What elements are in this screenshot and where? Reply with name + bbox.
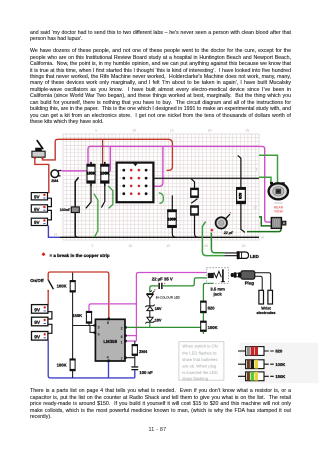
battery B1 9V (schematic): [32, 305, 48, 314]
svg-text:3: 3: [98, 325, 100, 329]
battery link B1-B2: [48, 198, 52, 206]
green wire grid to LED lead 2: [211, 233, 224, 253]
magenta wire pin6: [127, 335, 137, 337]
resistor colour code panel: [240, 343, 319, 383]
svg-text:9V: 9V: [34, 220, 41, 225]
svg-text:100K: 100K: [208, 325, 218, 330]
svg-text:20: 20: [208, 129, 212, 133]
column numbers bottom of grid: [92, 244, 246, 248]
svg-text:electrodes: electrodes: [257, 311, 276, 315]
bi-colour LED: [146, 289, 155, 299]
LED panel indicator: [237, 251, 249, 259]
red wire top rail to IC pin 8 strip: [43, 139, 173, 170]
dark red wire rail to 150K strip: [102, 140, 104, 164]
svg-text:18V: 18V: [155, 306, 162, 311]
blue wire 100nF to rail: [134, 370, 136, 378]
note box: [179, 342, 224, 382]
svg-text:9V: 9V: [34, 195, 41, 200]
capacitor 22uF (top layout): [216, 214, 230, 228]
red wire switch to battery (schematic): [47, 291, 49, 305]
svg-text:14: 14: [260, 236, 264, 240]
svg-text:9V: 9V: [34, 307, 41, 313]
svg-text:9V: 9V: [34, 207, 41, 212]
svg-text:100 nF: 100 nF: [139, 370, 153, 375]
svg-text:100K: 100K: [57, 363, 67, 368]
svg-text:9V: 9V: [34, 334, 41, 340]
LED leads: [225, 253, 237, 256]
svg-text:+: +: [229, 211, 231, 215]
svg-text:150K: 150K: [275, 374, 285, 379]
svg-text:4: 4: [107, 356, 109, 360]
svg-text:BI-COLOUR LED: BI-COLOUR LED: [156, 295, 181, 299]
magenta wire pin1: [127, 340, 137, 342]
svg-text:show that batteries: show that batteries: [182, 357, 217, 362]
resistor 100K R2 (schematic): [57, 359, 76, 371]
zener diode 18V lower: [145, 317, 154, 323]
svg-text:25: 25: [242, 244, 246, 248]
svg-text:15: 15: [166, 244, 170, 248]
green wire jack sleeve to 820: [203, 283, 213, 301]
svg-text:25: 25: [246, 129, 250, 133]
wire rail to 100K R1: [72, 273, 74, 281]
blue wire battery minus to bottom rail: [48, 226, 60, 238]
svg-text:8: 8: [107, 321, 109, 325]
op-amp U2 LM358: [94, 318, 127, 363]
svg-text:is inserted the LED: is inserted the LED: [182, 370, 217, 375]
resistor 100K upper (top layout): [100, 162, 109, 186]
strip break marker: [210, 229, 213, 232]
black wire IC pin7 strip to grid edge: [154, 177, 259, 179]
svg-text:22 µF: 22 µF: [223, 231, 234, 235]
jack socket dashed outline (schematic): [207, 268, 229, 284]
wire 100K R2 to negative rail: [72, 371, 74, 378]
magenta branch to IC pin 3: [154, 146, 163, 186]
wire zener1 to zener2: [149, 311, 151, 318]
svg-text:When switch is ON: When switch is ON: [182, 344, 217, 349]
svg-text:are ok. When plug: are ok. When plug: [182, 364, 217, 369]
svg-text:the LED flashes to: the LED flashes to: [182, 350, 217, 355]
trimpot VR1 2M4: [51, 170, 61, 178]
150K lower lead: [86, 184, 91, 208]
diode D2: [191, 199, 198, 238]
svg-text:On/Off: On/Off: [30, 278, 44, 283]
green stub below 100K R3: [202, 331, 204, 334]
colour code resistor 100K: [238, 360, 285, 369]
capacitor 100nF (top layout): [71, 207, 79, 213]
green wire B grid to speaker: [259, 177, 271, 183]
svg-text:18V: 18V: [155, 317, 162, 322]
svg-text:LM358: LM358: [103, 339, 117, 344]
plug cable to electrodes: [255, 273, 271, 291]
svg-text:100K: 100K: [167, 216, 176, 221]
svg-text:150K: 150K: [86, 171, 95, 176]
red wire switch to battery +: [35, 159, 49, 194]
svg-text:20: 20: [204, 244, 208, 248]
battery link B1-B2 (schematic): [48, 312, 52, 319]
green jumper under 150K: [94, 194, 98, 238]
capacitor 22uF 35V (schematic): [158, 281, 166, 289]
svg-text:2: 2: [121, 327, 123, 331]
battery link B2-B3 (schematic): [48, 324, 52, 333]
svg-text:100nF: 100nF: [60, 208, 71, 212]
paragraph 2: [30, 48, 291, 125]
black wire pot strip down to bottom rail: [75, 177, 78, 237]
battery link B2-B3: [48, 210, 52, 220]
green wire grid to LED lead 1: [202, 222, 224, 256]
svg-text:150K: 150K: [72, 313, 82, 318]
bottom rail wire: [60, 236, 259, 238]
jack socket (top layout): [271, 218, 286, 229]
blue wire battery to negative rail: [48, 340, 135, 378]
dark green wire grid to jack upper: [259, 217, 271, 226]
svg-text:820: 820: [238, 193, 242, 199]
stripboard grid (top layout): [63, 134, 259, 240]
svg-text:22 µF 35 V: 22 µF 35 V: [152, 277, 173, 282]
battery B3 9V (schematic): [32, 332, 48, 341]
svg-text:VIEW: VIEW: [274, 209, 283, 213]
svg-text:6: 6: [121, 335, 123, 339]
resistor 820 (top layout): [236, 155, 246, 232]
svg-text:15: 15: [170, 129, 174, 133]
svg-text:Wrist: Wrist: [261, 306, 271, 310]
green jumper right of IC: [159, 193, 164, 204]
svg-text:820: 820: [208, 306, 216, 311]
green wire A grid to speaker: [259, 155, 278, 183]
magenta wire 150K to feedback rail: [89, 304, 136, 312]
svg-text:stops flashing: stops flashing: [182, 376, 208, 381]
speaker rear view: [269, 182, 288, 199]
svg-text:2M4: 2M4: [51, 179, 59, 183]
magenta branch to pin1 strip: [109, 146, 111, 171]
wrist electrode 1: [259, 290, 264, 304]
node A wire to IC pin5: [90, 326, 95, 333]
resistor 150K (schematic): [72, 311, 92, 323]
paragraph 3: [30, 388, 291, 420]
svg-text:SPKR: SPKR: [274, 201, 283, 205]
green wire 22uF to jack tip: [163, 278, 207, 286]
wire node A to 100K R2: [72, 326, 74, 359]
svg-text:5: 5: [92, 244, 94, 248]
resistor 100K lower (top layout): [167, 195, 177, 237]
battery B3 9V (top layout): [31, 218, 47, 225]
svg-text:10: 10: [253, 206, 257, 210]
svg-text:100K: 100K: [100, 171, 109, 176]
svg-text:10: 10: [132, 129, 136, 133]
diode D1: [191, 179, 198, 198]
svg-text:820: 820: [275, 349, 283, 354]
resistor 2M4 (schematic): [132, 344, 148, 355]
paragraph 1: [30, 30, 291, 43]
dark green wire 820 strip to jack lower: [247, 229, 281, 232]
resistor 820 (schematic): [200, 301, 215, 313]
on/off switch (schematic): [47, 279, 53, 292]
svg-text:4: 4: [256, 168, 258, 172]
legend strip break symbol: [42, 252, 46, 256]
svg-text:5: 5: [95, 129, 97, 133]
magenta output rail to jack: [136, 273, 206, 341]
green wire 820 to 100K R3: [202, 313, 204, 322]
colour code resistor 820: [238, 347, 283, 356]
capacitor 100nF (schematic): [131, 366, 153, 375]
resistor 150K (top layout): [86, 162, 95, 186]
green wire LED chain to 22uF: [150, 286, 158, 292]
svg-text:LED: LED: [250, 254, 259, 259]
svg-text:1: 1: [121, 340, 123, 344]
blue wire IC pin4 to rail: [108, 362, 110, 378]
row numbers: [54, 168, 264, 240]
wire 100K R1 to node A: [72, 292, 74, 326]
battery B2 9V (schematic): [32, 317, 48, 326]
wrist electrode 2: [268, 290, 273, 304]
wire LED to zener 1: [149, 299, 151, 306]
svg-text:10: 10: [128, 244, 132, 248]
page number: [149, 427, 167, 433]
wire 2M4 to 100nF and pin7 tap: [127, 355, 135, 366]
colour code resistor 150K: [238, 372, 285, 381]
svg-text:100K: 100K: [275, 362, 285, 367]
resistor 100K R1 (schematic): [57, 280, 76, 292]
node A wire to IC pin3: [73, 325, 95, 327]
IC socket U1 with strip breaks: [117, 163, 154, 203]
red positive rail (schematic): [48, 272, 109, 318]
wire 150K to node A: [88, 323, 90, 325]
100K upper lower lead: [101, 184, 104, 208]
wire zener2 to green line: [149, 322, 151, 327]
green jumper under 100K: [108, 186, 113, 209]
plug 3.5mm: [231, 271, 255, 279]
svg-text:9V: 9V: [34, 320, 41, 326]
magenta wire pot to rail over resistors to jack: [61, 146, 271, 222]
column numbers top of grid: [95, 129, 249, 133]
svg-text:7: 7: [121, 357, 123, 361]
svg-text:14: 14: [54, 232, 58, 236]
toggle switch S1: [32, 141, 45, 159]
svg-text:5: 5: [98, 333, 100, 337]
resistor 100K R3 (schematic): [200, 321, 217, 332]
svg-text:2M4: 2M4: [139, 349, 148, 354]
svg-text:Plug: Plug: [245, 281, 255, 286]
wire pin1 to 2M4: [134, 341, 136, 345]
battery B1 9V (top layout): [31, 193, 47, 200]
battery B2 9V (top layout): [31, 205, 47, 212]
svg-text:jack: jack: [213, 291, 223, 296]
svg-text:+: +: [164, 281, 166, 285]
zener diode 18V upper: [145, 305, 154, 311]
green wire pin2 to LED chain: [127, 326, 201, 328]
svg-text:100K: 100K: [57, 283, 67, 288]
svg-text:= a break in the copper strip: = a break in the copper strip: [50, 253, 110, 258]
